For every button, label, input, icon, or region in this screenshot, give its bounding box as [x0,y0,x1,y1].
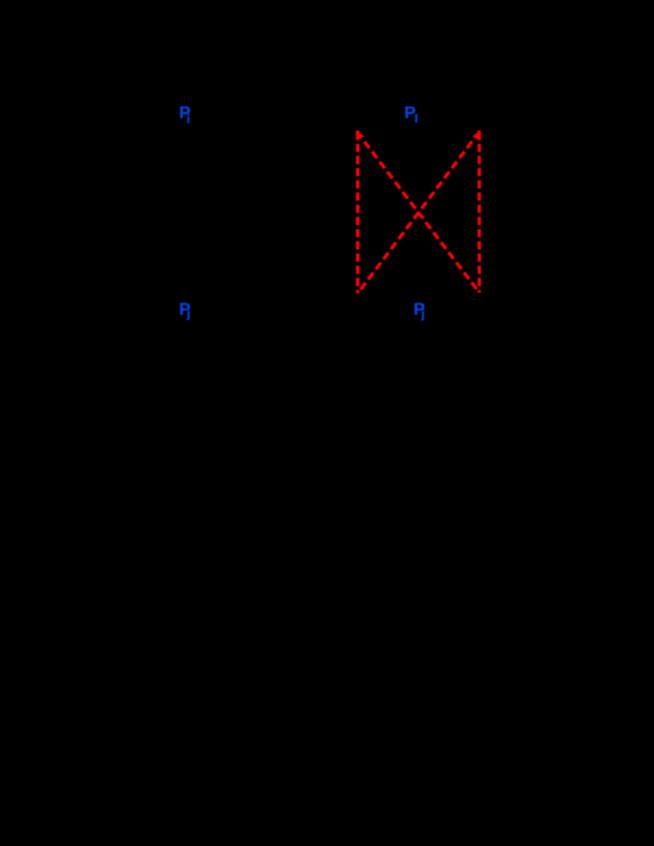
arrowhead at top-right [472,131,480,141]
node P_i label (left column, top) [179,103,190,126]
node P_j label (right column, bottom) [414,300,425,321]
tick at top-left tip [356,131,359,133]
wire: left vertical dashed red link P_i to P_j [356,132,360,293]
svg-text:P: P [404,103,415,122]
svg-text:i: i [187,112,190,126]
wire: diagonal dashed red arrow from bottom-left to top-right [358,138,474,293]
svg-text:j: j [186,307,190,321]
arrowhead at top-left [357,131,365,141]
node P_j label (left column, bottom) [179,299,190,320]
svg-text:j: j [420,307,424,321]
wire: diagonal dashed red arrow from bottom-right to top-left [362,138,479,292]
tick at top-right tip [477,131,480,133]
node P_i label (right column, top) [404,103,417,123]
wire: right vertical dashed red link [478,132,481,293]
